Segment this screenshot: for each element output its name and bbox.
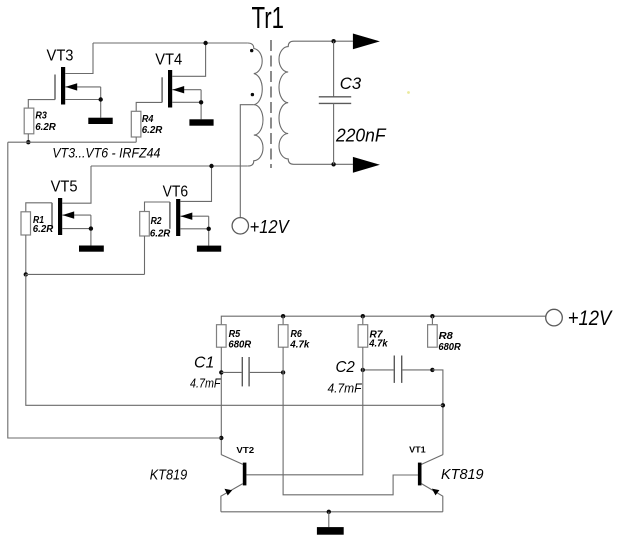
svg-text:6.2R: 6.2R — [35, 121, 56, 133]
svg-text:VT4: VT4 — [155, 51, 182, 68]
svg-text:C2: C2 — [336, 359, 355, 376]
svg-text:4.7mF: 4.7mF — [190, 376, 221, 391]
node R7 top — [361, 314, 365, 318]
wire secondary bottom to output — [334, 163, 353, 165]
wire VT2 collector to VT3/VT4 gate rail — [8, 142, 222, 438]
wire primary bottom terminal to VT5/VT6 drains — [91, 165, 248, 167]
svg-text:6.2R: 6.2R — [33, 223, 54, 235]
wire top rail VT3/VT4 drains to primary — [93, 42, 248, 44]
resistor R6 — [282, 316, 284, 325]
svg-text:4.7mF: 4.7mF — [328, 380, 363, 395]
node R8 top — [430, 314, 434, 318]
svg-text:C1: C1 — [194, 354, 214, 371]
terminal +12V supply — [546, 309, 563, 326]
svg-text:Tr1: Tr1 — [252, 0, 285, 35]
svg-text:680R: 680R — [438, 341, 461, 353]
transformer polarity dot lower — [251, 93, 254, 96]
resistor R4 — [131, 111, 141, 137]
ground VT4 — [189, 119, 213, 125]
wire R6 to VT1 base — [283, 347, 418, 495]
resistor R8 — [431, 316, 433, 325]
svg-text:4.7k: 4.7k — [368, 338, 388, 350]
wire R3 to lower rail — [27, 134, 29, 142]
wire secondary top to output — [334, 40, 353, 42]
wire gate-drive rail VT5/VT6 — [26, 273, 145, 275]
wire VT5 gate to R1 — [26, 203, 52, 212]
capacitor C2 — [363, 369, 394, 371]
wire VT1 collector to VT5/VT6 gate rail — [26, 274, 443, 405]
svg-text:VT2: VT2 — [236, 445, 254, 455]
svg-text:R3: R3 — [35, 110, 47, 122]
svg-text:6.2R: 6.2R — [142, 124, 163, 136]
resistor R7 — [362, 316, 364, 325]
ground VT3 — [88, 118, 112, 124]
transformer core — [270, 40, 272, 168]
capacitor C3 — [333, 41, 335, 97]
terminal +12V center tap — [232, 218, 248, 234]
svg-text:VT5: VT5 — [51, 178, 78, 195]
wire R4 to lower rail — [135, 137, 137, 142]
wire emitters common — [221, 511, 443, 513]
wire +12V supply rail — [221, 316, 545, 325]
svg-text:6.2R: 6.2R — [150, 228, 171, 240]
wire R7 to VT2 base — [246, 347, 362, 475]
ground VT5 — [79, 246, 104, 252]
transformer polarity dot upper — [250, 49, 253, 52]
svg-text:220nF: 220nF — [335, 125, 386, 145]
node secondary top — [331, 39, 335, 43]
svg-text:KT819: KT819 — [441, 466, 484, 483]
output arrow bottom — [353, 157, 380, 173]
svg-text:VT1: VT1 — [409, 445, 426, 455]
svg-text:KT819: KT819 — [150, 466, 188, 483]
node C1 left — [219, 370, 223, 374]
svg-text:+12V: +12V — [250, 217, 291, 237]
wire center tap to +12V — [240, 105, 254, 218]
wire VT3 gate to R3 — [28, 100, 55, 109]
svg-text:R4: R4 — [142, 113, 154, 125]
resistor R3 — [24, 108, 34, 134]
svg-text:+12V: +12V — [568, 307, 613, 330]
node R6 top — [281, 314, 285, 318]
resistor R2 — [140, 212, 150, 237]
resistor R1 — [21, 212, 31, 235]
svg-text:VT3: VT3 — [47, 47, 74, 64]
svg-text:680R: 680R — [228, 339, 251, 351]
wire R5 to VT2 collector — [220, 347, 222, 455]
transformer Tr1 secondary winding — [279, 41, 334, 164]
capacitor C1 — [221, 371, 241, 373]
svg-text:VT6: VT6 — [163, 184, 189, 201]
wire VT4 gate to R4 — [136, 102, 162, 111]
ground multivibrator — [328, 512, 330, 527]
resistor R5 — [217, 325, 227, 348]
node drive wire to VT2 collector — [219, 436, 223, 440]
svg-text:4.7k: 4.7k — [289, 339, 310, 351]
wire VT6 gate to R2 — [145, 202, 170, 212]
output arrow top — [353, 34, 380, 50]
wire R1 to gate rail — [25, 235, 27, 274]
node secondary bottom — [331, 162, 335, 166]
svg-text:VT3...VT6 - IRFZ44: VT3...VT6 - IRFZ44 — [52, 146, 160, 161]
svg-text:R2: R2 — [151, 215, 162, 227]
svg-text:C3: C3 — [340, 75, 362, 93]
wire lower gate-drive rail VT3/VT4 — [8, 141, 136, 143]
artifact speck — [407, 91, 410, 94]
transformer Tr1 primary winding — [248, 43, 263, 166]
ground VT6 — [197, 246, 221, 252]
wire R2 to gate rail — [144, 236, 146, 274]
wire R8/C2 to VT1 collector — [432, 370, 443, 455]
